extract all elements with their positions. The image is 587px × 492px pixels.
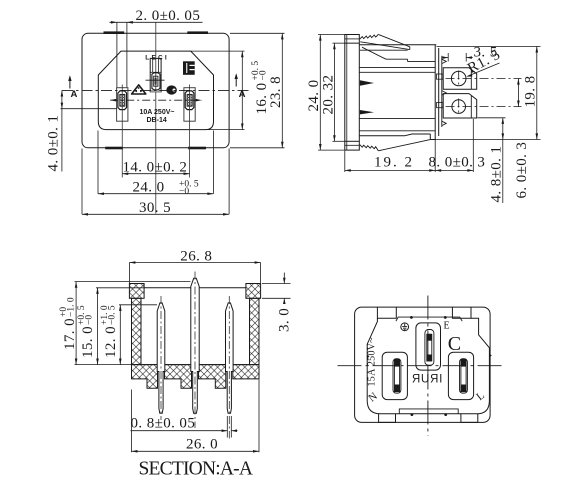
top snap latch with serrations: [360, 34, 410, 49]
left pin slot: [117, 88, 128, 122]
horizontal centreline (rear view): [338, 365, 505, 367]
dimension 8.0±0.3 (terminal length): [435, 119, 473, 172]
moulded logo (mirrored RURI): [411, 374, 442, 386]
svg-text:20. 32: 20. 32: [320, 75, 336, 115]
edge marker dots: [367, 316, 492, 416]
left wall (section): [132, 298, 142, 364]
svg-text:3. 0: 3. 0: [277, 308, 293, 332]
svg-text:17. 0: 17. 0: [62, 318, 78, 350]
svg-text:15A 250V~: 15A 250V~: [367, 337, 378, 387]
top mounting tab left: [377, 307, 396, 318]
left pin (section): [157, 303, 165, 413]
left pin centreline: [121, 85, 123, 178]
svg-text:19. 8: 19. 8: [523, 76, 539, 108]
top mounting tab right: [452, 307, 471, 318]
bottom mounting tab left: [379, 414, 396, 423]
svg-text:SECTION:A-A: SECTION:A-A: [139, 459, 253, 480]
right pin centreline: [228, 296, 230, 439]
svg-text:30. 5: 30. 5: [139, 200, 171, 216]
dimension 12.0 +1.0/-0.5 (pin height): [119, 305, 157, 365]
svg-text:0. 8±0. 05: 0. 8±0. 05: [131, 416, 196, 432]
label N: [366, 390, 380, 404]
svg-text:E: E: [444, 320, 450, 331]
centre pin centreline: [194, 272, 196, 429]
vertical centreline (rear view): [427, 296, 429, 437]
section line A-A (dash-dot): [62, 89, 249, 91]
svg-text:14. 0±0. 2: 14. 0±0. 2: [123, 159, 188, 175]
upper retention barb: [360, 80, 374, 85]
svg-text:12. 0: 12. 0: [103, 326, 119, 358]
lower terminal block: [443, 94, 477, 118]
dimension 17.0 +0/-1.0 (earth pin height): [75, 282, 191, 365]
rating text 15A 250V~: [367, 337, 378, 387]
dimension 16.0 +0.5/-0 (face height): [191, 51, 245, 129]
earth contact: [427, 334, 432, 361]
svg-text:4. 0±0. 1: 4. 0±0. 1: [46, 115, 62, 172]
dimension 15.0 +0.5/-0 (cavity depth): [96, 288, 144, 365]
svg-text:26. 0: 26. 0: [186, 437, 218, 453]
dimension 30.5 (overall width): [82, 149, 229, 215]
right pin slot: [184, 88, 195, 122]
svg-text:2. 0±0. 05: 2. 0±0. 05: [136, 8, 201, 24]
right flange tab (section): [246, 284, 261, 299]
svg-text:A: A: [71, 89, 78, 100]
base section strip 4: [233, 365, 259, 379]
dimension 20.32: [333, 43, 345, 141]
top mounting tab (right, thick): [187, 31, 208, 34]
left pin (N): [118, 91, 127, 110]
right pin (section): [226, 303, 234, 413]
ground pin slot (top centre): [150, 58, 161, 91]
svg-text:19. 2: 19. 2: [374, 154, 414, 170]
neutral contact: [394, 359, 399, 391]
base section strip 3: [199, 365, 226, 389]
ground pin centre tick: [146, 79, 165, 81]
svg-text:−0: −0: [84, 315, 94, 325]
ground pin (earth contact): [152, 73, 160, 90]
bottom mounting tab (right, thick): [188, 147, 206, 150]
neutral slot (N): [382, 352, 407, 399]
dimension 14.0±0.2 (pin pitch): [122, 173, 189, 175]
upper terminal centrelines: [446, 78, 522, 80]
pin row dash-dot line with arrows: [110, 99, 201, 101]
svg-text:−0: −0: [179, 187, 189, 197]
earth slot (E): [416, 323, 441, 370]
round certification mark: [166, 85, 177, 94]
raised plateau on bottom edge: [399, 409, 458, 414]
right pin centreline: [189, 85, 191, 178]
body outline (side): [359, 45, 438, 140]
svg-text:IRUR: IRUR: [411, 374, 442, 386]
dimension 2.0±0.05 (pin width): [110, 22, 203, 87]
body internal mould lines: [359, 47, 435, 131]
earthing symbol: [401, 323, 409, 331]
dimension 4.8±0.1 (terminal offset): [478, 118, 506, 203]
radius callout R1.5: [465, 47, 503, 77]
svg-text:15. 0: 15. 0: [80, 326, 96, 358]
svg-text:23. 8: 23. 8: [268, 76, 284, 108]
dimension 26.0 (base width): [132, 380, 260, 453]
cavity floor line: [141, 364, 250, 366]
right pin (L): [185, 91, 194, 110]
svg-text:8. 0±0. 3: 8. 0±0. 3: [429, 154, 486, 170]
svg-text:6. 0±0. 3: 6. 0±0. 3: [514, 142, 530, 199]
upper terminal block: [443, 68, 477, 90]
outer body rounded rectangle (rear): [355, 307, 491, 422]
svg-text:10A 250V~: 10A 250V~: [140, 109, 175, 116]
dimension 19.8 (body height): [437, 46, 541, 139]
svg-text:−0. 5: −0. 5: [108, 305, 118, 325]
dimension 19.2 (body depth): [345, 140, 435, 172]
left flange tab (section): [129, 284, 144, 299]
svg-text:26. 8: 26. 8: [180, 248, 212, 264]
dimension 23.8 (body height): [230, 33, 285, 148]
vertical centerline of view 1: [155, 22, 157, 213]
triangle certification mark: [132, 85, 146, 94]
dimension 0.8±0.05 (solder pin thickness): [131, 416, 238, 438]
live contact: [461, 359, 466, 391]
recess edge line between tabs: [396, 317, 462, 321]
live slot (L): [448, 352, 473, 399]
lower terminal centrelines: [446, 106, 522, 108]
outer body rounded rectangle: [82, 33, 229, 148]
dimension 24.0 +0.5/-0 (face width): [98, 131, 213, 194]
dimension 24.0 (flange height): [318, 35, 345, 151]
inner recessed face (chamfered trapezoid): [98, 51, 213, 129]
mounting flange plate: [345, 35, 360, 151]
left pin centreline: [160, 296, 162, 420]
svg-text:24. 0: 24. 0: [133, 180, 165, 196]
bottom snap latch with serrations: [360, 140, 431, 151]
dimension 26.8 (flange width): [129, 263, 260, 284]
black logo mark: [183, 61, 195, 75]
top mounting tab (left, thick): [104, 31, 125, 34]
dimension 4.0±0.1 (pin depth): [61, 90, 118, 171]
bottom mounting tab right: [461, 414, 478, 423]
rim top surface line: [144, 287, 246, 289]
bottom mounting tab (left, thick): [105, 147, 123, 150]
dimension line between terminal centres: [517, 79, 519, 107]
right wall (section): [250, 298, 260, 364]
terminal carrier rail: [437, 56, 447, 127]
svg-text:−0: −0: [259, 70, 269, 80]
svg-text:4. 8±0. 1: 4. 8±0. 1: [488, 146, 504, 203]
base section strip 2: [165, 365, 192, 389]
section arrow left: [69, 77, 71, 89]
svg-text:LECI: LECI: [145, 54, 169, 61]
centre (earth) pin (section): [191, 278, 199, 413]
dimension 3.0 (flange thickness): [262, 273, 291, 304]
ground slot bottom shading: [150, 90, 161, 92]
dimension 6.0±0.3: [514, 142, 530, 199]
lower retention barb: [360, 110, 374, 114]
section arrow right: [235, 75, 237, 87]
base section strip 1: [132, 365, 158, 389]
rear face outline: [367, 318, 489, 414]
svg-text:−1. 0: −1. 0: [67, 297, 77, 317]
dimension 3.5 (terminal tab): [442, 53, 473, 62]
label L: [474, 389, 487, 403]
svg-text:DB-14: DB-14: [147, 117, 167, 124]
